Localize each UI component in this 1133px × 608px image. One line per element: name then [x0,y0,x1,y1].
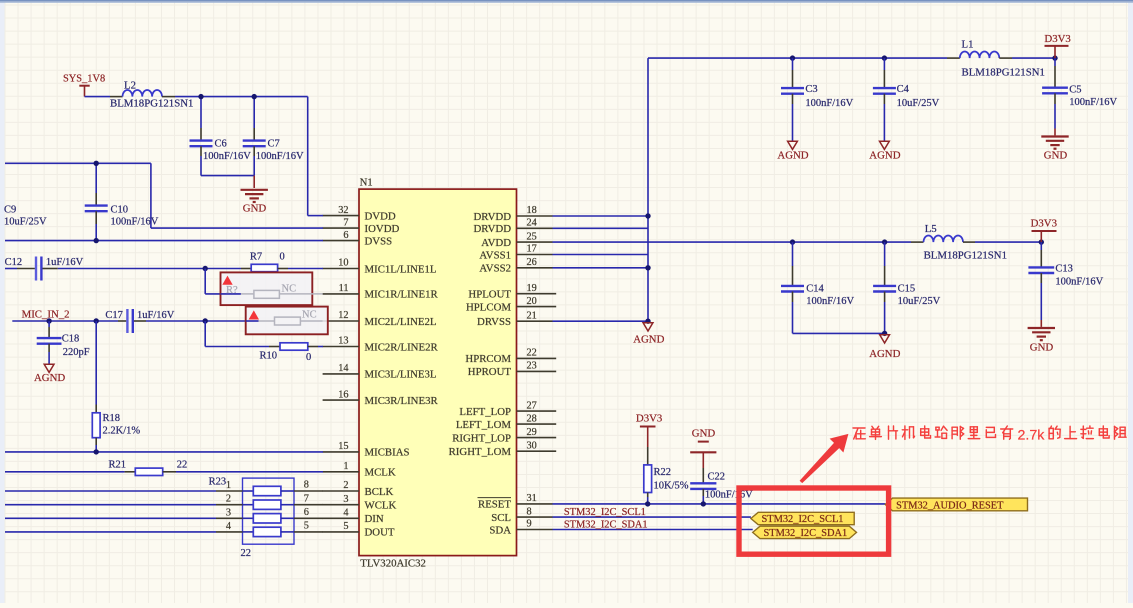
svg-text:C17: C17 [105,310,123,321]
svg-text:100nF/16V: 100nF/16V [705,490,753,501]
svg-text:N1: N1 [360,178,373,189]
svg-text:10: 10 [338,258,348,269]
svg-text:100nF/16V: 100nF/16V [1069,97,1117,108]
svg-text:SYS_1V8: SYS_1V8 [63,74,105,85]
svg-text:MCLK: MCLK [365,467,396,479]
svg-text:SCL: SCL [491,512,511,524]
svg-text:3: 3 [343,494,348,505]
svg-text:AVSS2: AVSS2 [479,263,511,275]
svg-text:LEFT_LOM: LEFT_LOM [456,419,512,431]
svg-text:DVSS: DVSS [365,235,393,247]
svg-text:22: 22 [177,460,188,471]
svg-text:4: 4 [343,508,348,519]
svg-text:7: 7 [304,493,309,504]
svg-text:C13: C13 [1055,264,1073,275]
svg-text:12: 12 [338,310,348,321]
svg-text:BCLK: BCLK [365,486,394,498]
svg-text:D3V3: D3V3 [1031,218,1057,230]
svg-text:32: 32 [338,205,348,216]
svg-text:19: 19 [527,283,537,294]
svg-text:DRVDD: DRVDD [473,223,511,235]
svg-text:C7: C7 [268,139,280,150]
svg-text:DVDD: DVDD [365,210,396,222]
svg-text:29: 29 [527,427,537,438]
svg-text:L1: L1 [962,39,974,51]
svg-text:2: 2 [226,494,231,505]
svg-text:10K/5%: 10K/5% [654,481,689,492]
svg-text:WCLK: WCLK [365,500,397,512]
svg-text:C14: C14 [806,284,824,295]
svg-text:0: 0 [280,252,285,263]
svg-text:C9: C9 [4,205,16,216]
svg-text:MIC1R/LINE1R: MIC1R/LINE1R [365,289,439,301]
svg-text:8: 8 [304,480,309,491]
svg-text:10uF/25V: 10uF/25V [897,98,940,109]
svg-text:STM32_I2C_SDA1: STM32_I2C_SDA1 [764,528,848,539]
svg-text:NC: NC [282,284,297,295]
svg-text:24: 24 [527,218,537,229]
svg-text:AVDD: AVDD [481,237,511,249]
svg-text:BLM18PG121SN1: BLM18PG121SN1 [110,98,193,110]
svg-text:6: 6 [343,230,348,241]
svg-text:100nF/16V: 100nF/16V [256,151,304,162]
svg-text:AGND: AGND [777,150,808,162]
svg-text:TLV320AIC32: TLV320AIC32 [360,558,426,570]
svg-text:3: 3 [226,507,231,518]
svg-text:20: 20 [527,296,537,307]
svg-text:MIC2L/LINE2L: MIC2L/LINE2L [365,316,437,328]
svg-text:4: 4 [226,521,231,532]
svg-text:11: 11 [339,283,349,294]
svg-text:C3: C3 [805,84,817,95]
svg-text:IOVDD: IOVDD [365,223,400,235]
svg-text:0: 0 [306,352,311,363]
svg-text:DIN: DIN [365,513,384,525]
svg-text:STM32_I2C_SDA1: STM32_I2C_SDA1 [564,519,648,530]
svg-text:22: 22 [241,548,252,559]
svg-text:1uF/16V: 1uF/16V [137,310,175,321]
svg-text:AVSS1: AVSS1 [479,249,511,261]
svg-text:10uF/25V: 10uF/25V [4,217,47,228]
svg-text:220pF: 220pF [63,347,90,358]
svg-text:2: 2 [343,480,348,491]
svg-text:STM32_AUDIO_RESET: STM32_AUDIO_RESET [896,500,1004,511]
svg-text:13: 13 [338,336,348,347]
svg-text:R23: R23 [209,477,227,488]
svg-text:7: 7 [343,217,348,228]
svg-text:17: 17 [527,244,537,255]
svg-text:31: 31 [527,493,537,504]
svg-text:HPRCOM: HPRCOM [465,353,511,365]
svg-text:D3V3: D3V3 [636,413,662,425]
svg-text:BLM18PG121SN1: BLM18PG121SN1 [962,67,1045,79]
svg-text:5: 5 [343,521,348,532]
svg-text:10uF/25V: 10uF/25V [898,296,941,307]
svg-text:AGND: AGND [869,348,900,360]
svg-text:MIC2R/LINE2R: MIC2R/LINE2R [365,341,439,353]
svg-text:100nF/16V: 100nF/16V [111,217,159,228]
svg-text:25: 25 [527,231,537,242]
svg-text:STM32_I2C_SCL1: STM32_I2C_SCL1 [564,507,646,518]
svg-text:L2: L2 [124,80,136,92]
svg-text:C5: C5 [1069,85,1081,96]
svg-text:RIGHT_LOM: RIGHT_LOM [449,446,512,458]
svg-text:GND: GND [1030,342,1054,354]
svg-text:D3V3: D3V3 [1044,33,1070,45]
svg-text:C12: C12 [5,257,23,268]
svg-text:MIC3R/LINE3R: MIC3R/LINE3R [365,395,439,407]
svg-text:R7: R7 [250,252,262,263]
svg-text:DOUT: DOUT [365,527,395,539]
svg-text:21: 21 [527,310,537,321]
svg-text:18: 18 [527,205,537,216]
svg-text:100nF/16V: 100nF/16V [806,296,854,307]
svg-text:2.7k: 2.7k [1018,427,1046,443]
svg-text:26: 26 [527,257,537,268]
svg-text:28: 28 [527,413,537,424]
svg-text:GND: GND [1044,150,1068,162]
svg-text:GND: GND [692,428,716,440]
svg-text:LEFT_LOP: LEFT_LOP [459,406,511,418]
svg-text:14: 14 [338,363,348,374]
svg-text:HPROUT: HPROUT [468,366,512,378]
svg-text:STM32_I2C_SCL1: STM32_I2C_SCL1 [762,514,844,525]
svg-text:DRVDD: DRVDD [473,211,511,223]
svg-text:22: 22 [527,348,537,359]
svg-text:MIC1L/LINE1L: MIC1L/LINE1L [365,263,437,275]
svg-text:23: 23 [527,361,537,372]
svg-text:9: 9 [527,519,532,530]
svg-text:R18: R18 [103,413,121,424]
svg-text:1uF/16V: 1uF/16V [46,257,84,268]
svg-text:AGND: AGND [633,334,664,346]
svg-text:MICBIAS: MICBIAS [365,447,410,459]
svg-text:BLM18PG121SN1: BLM18PG121SN1 [924,250,1007,262]
svg-text:2.2K/1%: 2.2K/1% [103,426,141,437]
svg-text:100nF/16V: 100nF/16V [1055,277,1103,288]
svg-text:AGND: AGND [34,372,65,384]
svg-text:C15: C15 [898,284,916,295]
svg-text:R10: R10 [260,351,278,362]
svg-text:1: 1 [226,480,231,491]
svg-text:100nF/16V: 100nF/16V [203,151,251,162]
svg-text:NC: NC [302,310,317,321]
svg-text:R?: R? [226,285,238,296]
svg-text:AGND: AGND [869,150,900,162]
svg-text:C4: C4 [897,84,910,95]
svg-text:R22: R22 [654,467,672,478]
svg-text:MIC_IN_2: MIC_IN_2 [22,309,70,321]
svg-text:1: 1 [343,461,348,472]
svg-text:DRVSS: DRVSS [477,316,511,328]
svg-text:6: 6 [304,507,309,518]
svg-text:C6: C6 [215,139,227,150]
svg-text:HPLCOM: HPLCOM [466,301,511,313]
svg-text:SDA: SDA [489,524,511,536]
svg-text:C18: C18 [62,334,80,345]
svg-text:GND: GND [243,203,267,215]
svg-text:30: 30 [527,440,537,451]
svg-text:5: 5 [304,521,309,532]
svg-text:R21: R21 [109,460,127,471]
svg-text:C10: C10 [111,205,129,216]
svg-text:27: 27 [527,400,537,411]
svg-text:8: 8 [527,506,532,517]
svg-text:15: 15 [338,441,348,452]
svg-text:RIGHT_LOP: RIGHT_LOP [452,432,511,444]
svg-text:MIC3L/LINE3L: MIC3L/LINE3L [365,369,437,381]
svg-text:100nF/16V: 100nF/16V [805,98,853,109]
svg-text:RESET: RESET [478,499,511,511]
svg-text:HPLOUT: HPLOUT [468,289,511,301]
svg-text:16: 16 [338,389,348,400]
svg-text:C22: C22 [708,472,726,483]
svg-text:L5: L5 [925,223,937,235]
